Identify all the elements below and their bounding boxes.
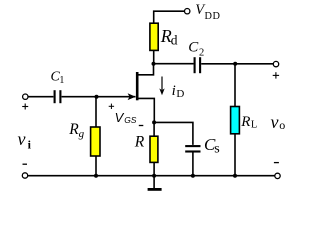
label Rd	[160, 26, 178, 47]
label iD	[172, 83, 185, 100]
resistor Rg	[91, 127, 100, 156]
svg-text:g: g	[79, 128, 85, 140]
junction gate node	[95, 95, 99, 99]
svg-text:v: v	[271, 112, 279, 132]
label C2	[188, 40, 204, 59]
label - (VGS minus)	[139, 125, 144, 127]
wire input to C1	[28, 96, 53, 98]
svg-text:1: 1	[59, 75, 64, 86]
resistor Rd	[150, 23, 158, 50]
terminal VDD	[185, 9, 190, 14]
svg-text:GS: GS	[124, 115, 137, 125]
label - (output bottom)	[274, 162, 279, 164]
junction rail R ground	[152, 174, 156, 178]
wire C2 to output	[201, 63, 273, 65]
label RL	[240, 114, 257, 130]
terminal output +	[273, 61, 278, 66]
bottom rail wire	[28, 175, 275, 177]
wire drain node to Rd	[153, 50, 155, 63]
svg-text:s: s	[214, 141, 219, 156]
svg-text:v: v	[18, 129, 26, 149]
wire gate node to Rg	[95, 97, 97, 127]
svg-text:V: V	[115, 110, 125, 125]
ground	[148, 176, 162, 190]
label R	[134, 133, 145, 150]
label C1	[51, 69, 65, 86]
input terminal +	[23, 94, 28, 99]
junction rail Rg	[94, 174, 98, 178]
label + (output top)	[273, 72, 279, 78]
svg-text:DD: DD	[205, 11, 221, 22]
label - (input bottom)	[23, 163, 28, 165]
svg-text:C: C	[188, 40, 199, 56]
junction output node	[233, 62, 237, 66]
resistor RL	[231, 107, 240, 134]
junction rail CS	[191, 174, 195, 178]
current arrow iD	[159, 77, 164, 96]
transistor Q1	[128, 72, 138, 100]
label vi	[18, 129, 32, 152]
label Rg	[68, 121, 84, 140]
label CS	[204, 135, 220, 157]
wire output node to RL	[234, 64, 236, 107]
label VDD	[195, 2, 220, 22]
wire C1 to gate	[62, 96, 136, 98]
svg-text:R: R	[134, 133, 145, 150]
svg-text:d: d	[171, 33, 178, 48]
svg-text:L: L	[251, 119, 257, 130]
label vo	[271, 112, 286, 132]
wire drain lead	[138, 64, 153, 75]
svg-text:i: i	[172, 83, 176, 99]
junction source node	[152, 120, 156, 124]
svg-text:2: 2	[199, 48, 204, 59]
wire CS to rail	[192, 153, 194, 176]
wire source node to CS	[154, 122, 193, 144]
wire RL to rail	[234, 134, 236, 176]
resistor R	[150, 136, 158, 162]
capacitor C1	[55, 90, 61, 103]
wire source node to R	[153, 122, 155, 136]
wire source lead	[138, 98, 154, 122]
junction rail RL	[233, 174, 237, 178]
terminal output -	[275, 173, 280, 178]
wire Rg to rail	[95, 156, 97, 176]
junction drain node	[152, 62, 156, 66]
terminal input -	[22, 173, 27, 178]
wire R to rail	[153, 162, 155, 175]
wire drain node to C2	[154, 63, 194, 65]
capacitor CS	[185, 146, 200, 151]
svg-text:R: R	[240, 114, 250, 130]
capacitor C2	[195, 57, 201, 73]
label + (input top)	[22, 104, 28, 110]
wire Rd to VDD	[154, 11, 185, 23]
label VGS	[115, 110, 137, 125]
svg-text:D: D	[176, 88, 184, 100]
label + (gate)	[109, 104, 114, 109]
svg-text:o: o	[279, 118, 285, 132]
